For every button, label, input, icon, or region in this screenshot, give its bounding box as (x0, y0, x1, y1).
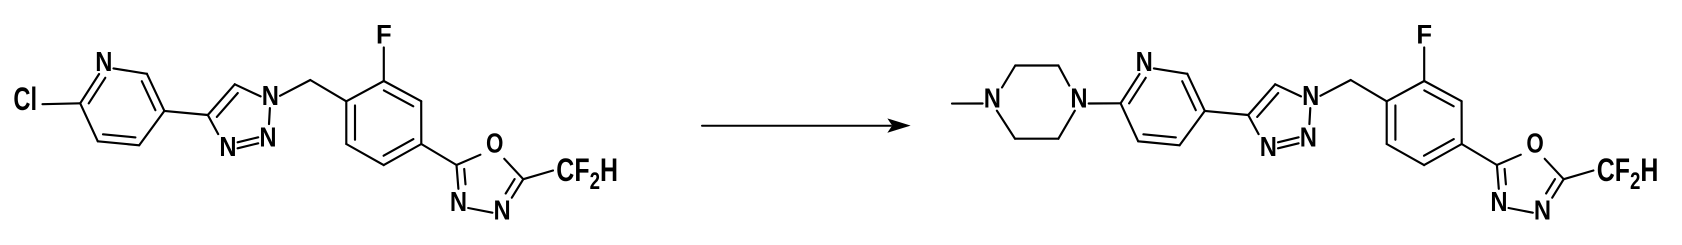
svg-text:O: O (1526, 128, 1543, 159)
svg-text:N: N (1260, 130, 1277, 162)
svg-text:N: N (1136, 45, 1153, 77)
svg-text:N: N (984, 82, 1001, 114)
svg-text:N: N (494, 194, 511, 226)
svg-text:N: N (1490, 185, 1507, 217)
svg-text:N: N (262, 79, 279, 111)
svg-text:N: N (1302, 79, 1319, 111)
svg-text:N: N (95, 45, 112, 77)
svg-text:CF2H: CF2H (556, 153, 618, 194)
svg-text:CF2H: CF2H (1597, 153, 1659, 194)
svg-text:N: N (450, 185, 467, 217)
svg-text:F: F (1416, 19, 1432, 50)
svg-text:N: N (1070, 82, 1087, 114)
svg-text:N: N (1300, 121, 1317, 153)
svg-text:N: N (1534, 194, 1551, 226)
svg-text:N: N (259, 121, 276, 153)
svg-text:Cl: Cl (13, 82, 37, 117)
svg-text:O: O (486, 128, 503, 159)
svg-text:F: F (376, 19, 392, 50)
svg-text:N: N (219, 130, 236, 162)
